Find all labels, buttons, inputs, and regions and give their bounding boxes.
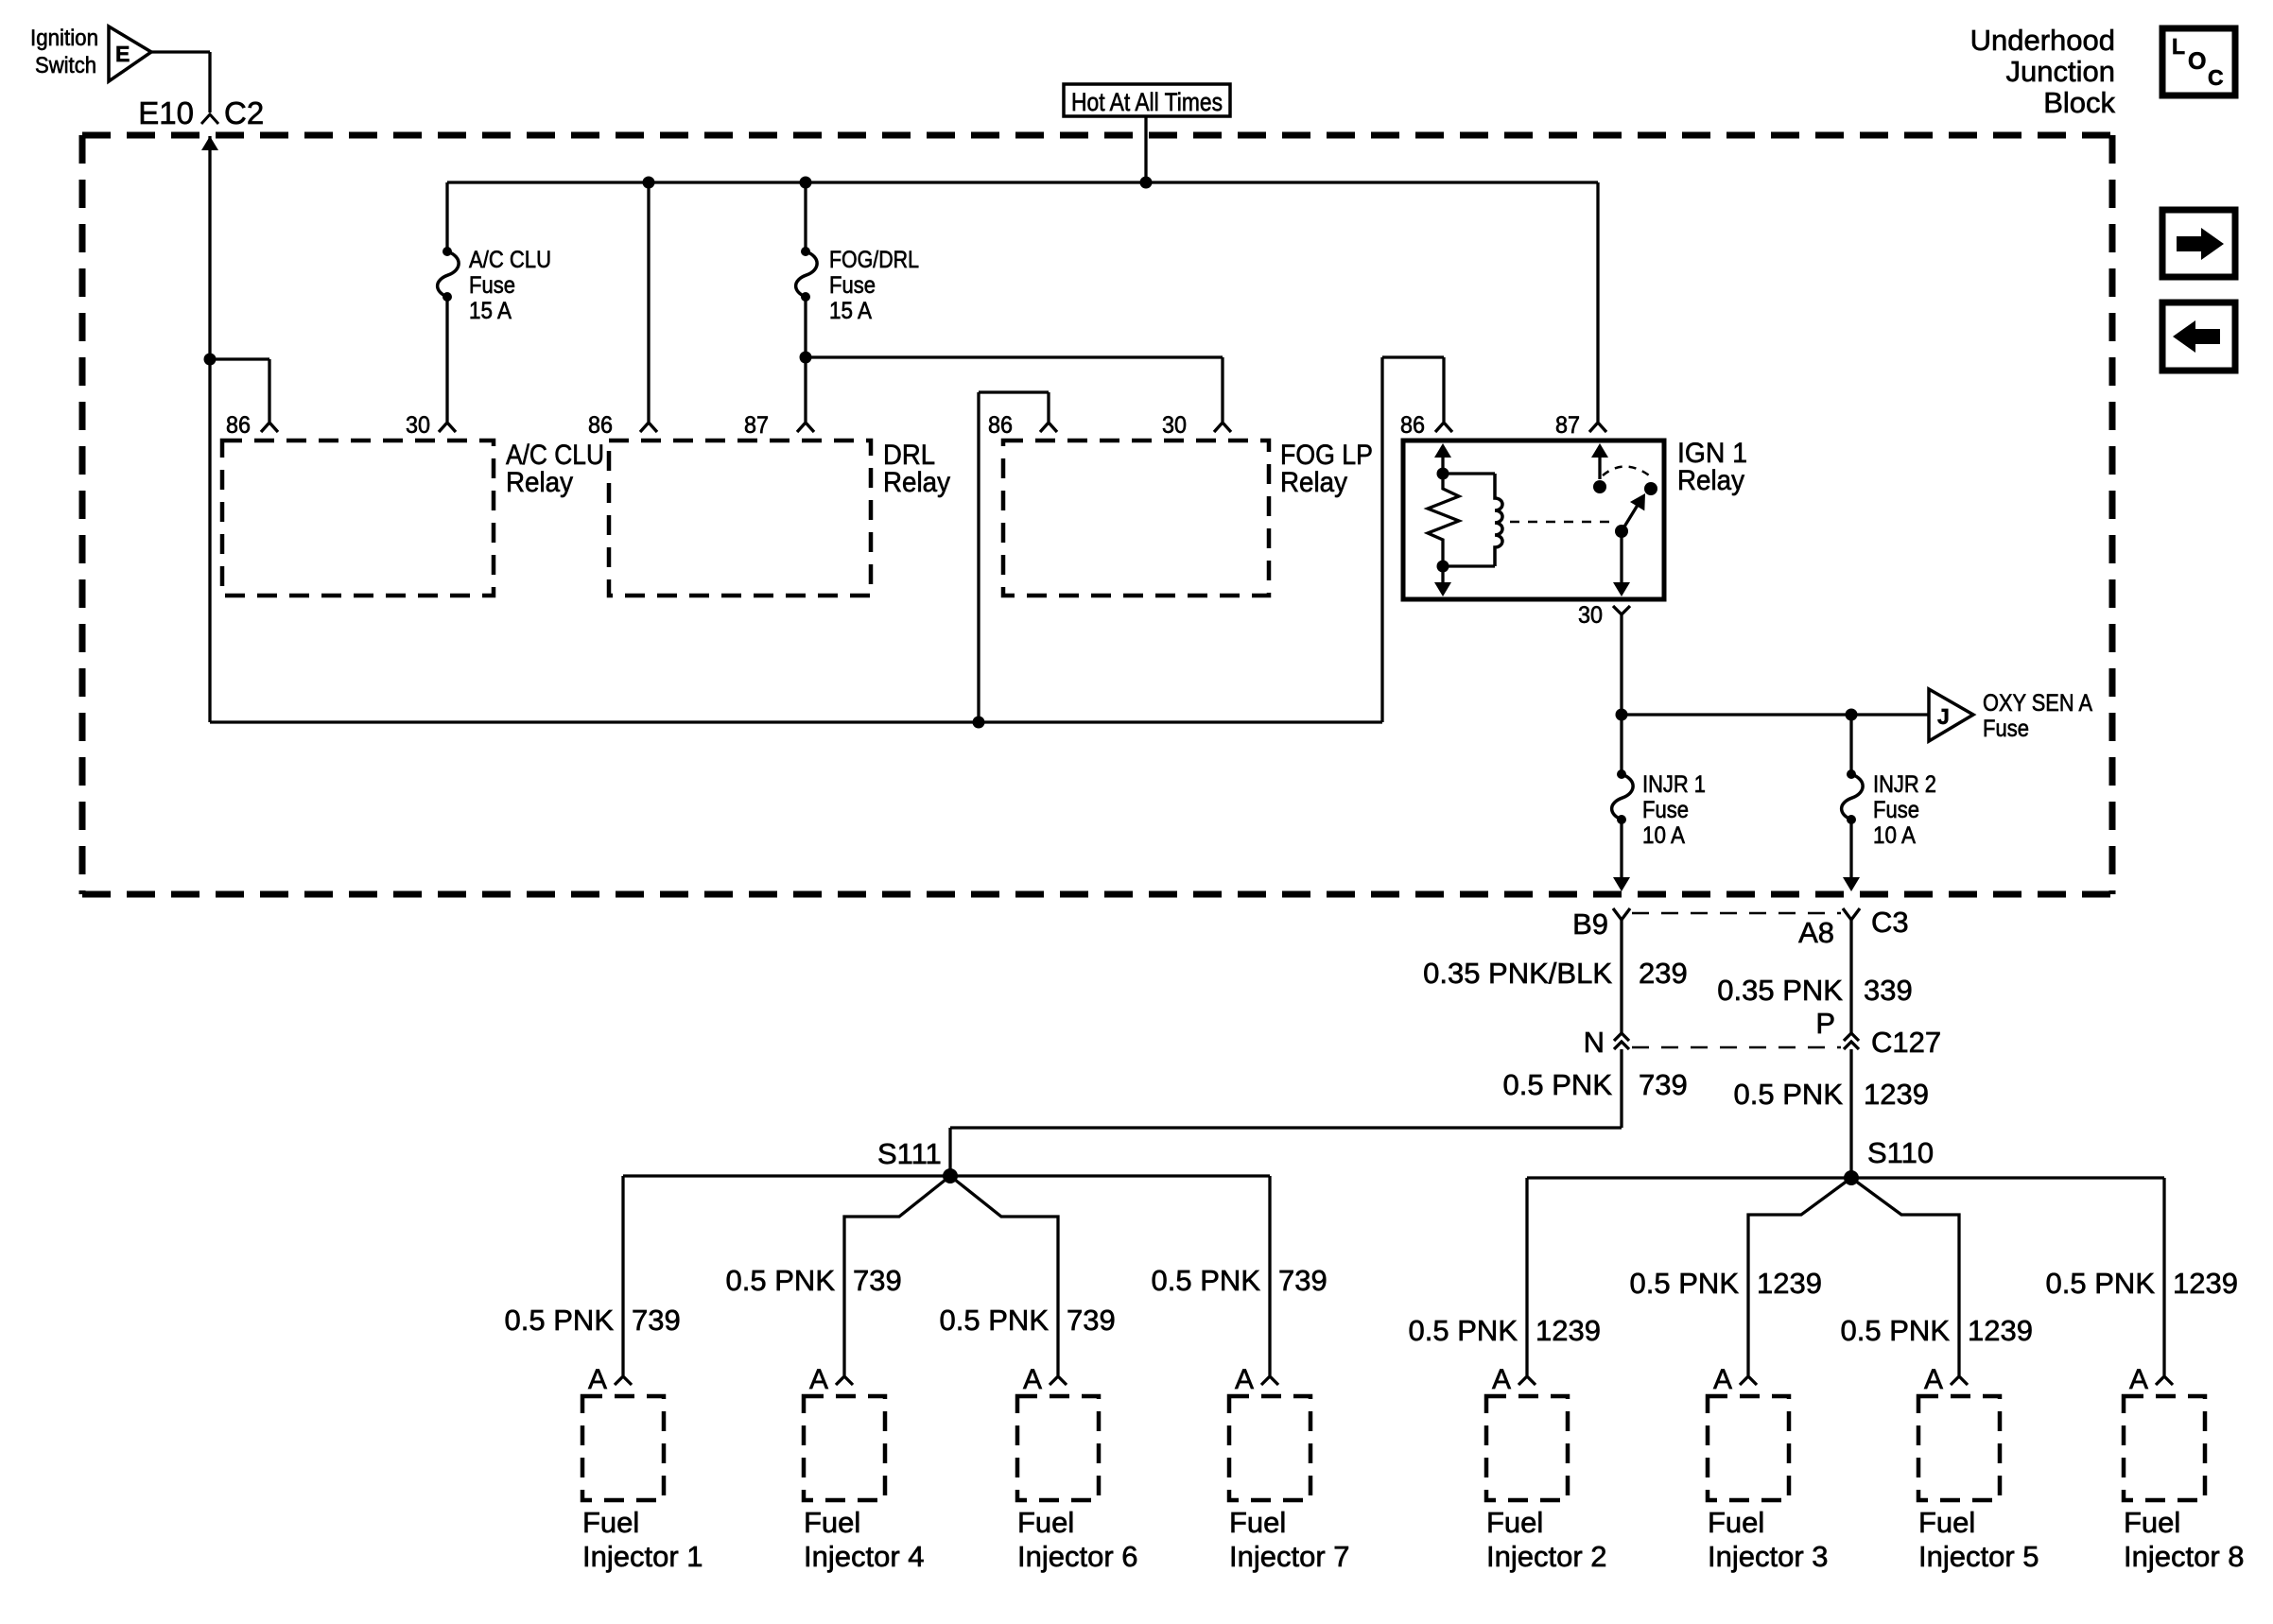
- svg-text:A: A: [1235, 1364, 1254, 1395]
- svg-text:P: P: [1815, 1007, 1835, 1040]
- wire from Hot At All Times to bus: [1144, 116, 1147, 182]
- junction node ignition feed to A/C CLU relay 86: [204, 354, 217, 366]
- svg-text:Relay: Relay: [1280, 467, 1347, 498]
- splice S110 distribution bus: [1527, 1176, 2164, 1179]
- ignition feed vertical wire: [208, 136, 211, 722]
- Hot At All Times callout box: [1064, 84, 1230, 116]
- label Fuel Injector 6: [1017, 1506, 1138, 1573]
- svg-text:INJR 1: INJR 1: [1642, 771, 1706, 798]
- svg-text:FOG/DRL: FOG/DRL: [829, 247, 919, 273]
- svg-text:Ignition: Ignition: [30, 26, 98, 51]
- wire splice S110 to fuel injector 5: [1851, 1178, 1959, 1375]
- wire 0.5 PNK 1239 to fuel injector 2: [1525, 1178, 1528, 1375]
- wire branch to FOG LP relay 30: [806, 355, 1223, 358]
- svg-text:739: 739: [1639, 1068, 1688, 1101]
- svg-text:Fuel: Fuel: [1918, 1506, 1975, 1539]
- svg-text:C127: C127: [1871, 1026, 1941, 1059]
- fuel injector 5 dashed box: [1918, 1396, 2000, 1500]
- svg-text:Relay: Relay: [506, 467, 573, 498]
- connector C127 dashed tie line: [1632, 1046, 1841, 1049]
- label Underhood Junction Block: [1970, 24, 2116, 119]
- terminal pin A chevron fuel injector 5: [1951, 1376, 1968, 1385]
- wire bus to DRL relay pin 86: [647, 182, 650, 422]
- fuse INJR 1 10 A: [1612, 769, 1634, 824]
- hot bus wire: [447, 181, 1598, 183]
- wire splice S111 to fuel injector 6: [950, 1176, 1058, 1375]
- legend box left arrow: [2162, 302, 2235, 371]
- direction arrow into junction block at C2: [201, 136, 218, 150]
- relay IGN 1 box: [1403, 441, 1664, 599]
- terminal pin 86 chevron: [1040, 423, 1057, 432]
- svg-text:A: A: [2129, 1364, 2148, 1395]
- connector pin C3 chevron: [1843, 908, 1860, 920]
- relay FOG LP dashed box: [1003, 441, 1269, 596]
- label INJR 1 Fuse 10 A: [1642, 771, 1706, 849]
- label Fuel Injector 1: [582, 1506, 703, 1573]
- svg-text:E: E: [115, 42, 130, 66]
- svg-text:739: 739: [853, 1264, 902, 1297]
- svg-text:A: A: [1924, 1364, 1943, 1395]
- terminal pin 30 connector below IGN 1 relay: [1613, 606, 1630, 624]
- wire to OXY SEN A fuse connector: [1622, 713, 1929, 716]
- IGN 1 relay switch lead to pin 30: [1620, 531, 1622, 583]
- svg-text:0.5 PNK: 0.5 PNK: [1630, 1267, 1740, 1300]
- svg-text:0.5 PNK: 0.5 PNK: [1841, 1314, 1951, 1347]
- direction arrow out of junction block INJR 2: [1843, 877, 1860, 891]
- svg-text:0.35 PNK: 0.35 PNK: [1717, 974, 1843, 1007]
- label Fuel Injector 5: [1918, 1506, 2039, 1573]
- fuel injector 1 dashed box: [582, 1396, 664, 1500]
- wire down to A/C CLU relay pin 86: [268, 359, 270, 422]
- terminal pin 30 chevron: [439, 423, 456, 432]
- label Fuel Injector 2: [1486, 1506, 1607, 1573]
- svg-text:C3: C3: [1871, 906, 1909, 939]
- terminal pin A chevron fuel injector 1: [615, 1376, 632, 1385]
- direction arrow out of junction block INJR 1: [1613, 877, 1630, 891]
- svg-text:A: A: [588, 1364, 607, 1395]
- svg-text:A: A: [809, 1364, 828, 1395]
- IGN 1 relay internal resistor: [1428, 474, 1459, 566]
- svg-text:S110: S110: [1867, 1136, 1934, 1169]
- fuel injector 7 dashed box: [1229, 1396, 1310, 1500]
- Underhood Junction Block dashed border: [82, 135, 2112, 894]
- label Fuel Injector 8: [2124, 1506, 2245, 1573]
- ignition feed stub to IGN 1 relay 86: [1382, 355, 1444, 358]
- svg-text:10 A: 10 A: [1873, 822, 1916, 849]
- IGN 1 relay switch-side pin 87 internal lead: [1591, 443, 1608, 458]
- junction node bus to Hot At All Times lead: [1140, 177, 1153, 189]
- IGN 1 relay switch fixed contact: [1593, 480, 1606, 493]
- fuel injector 8 dashed box: [2124, 1396, 2205, 1500]
- junction node FOG/DRL fuse output: [800, 352, 812, 364]
- fuse INJR 2 10 A: [1842, 769, 1864, 824]
- svg-text:S111: S111: [877, 1137, 942, 1170]
- wire down to FOG LP relay pin 86: [1047, 392, 1050, 422]
- svg-text:Fuel: Fuel: [804, 1506, 860, 1539]
- svg-text:339: 339: [1864, 974, 1913, 1007]
- terminal pin 30 chevron: [1214, 423, 1231, 432]
- svg-text:87: 87: [1555, 412, 1580, 439]
- IGN 1 relay switch alternate contact: [1644, 482, 1657, 495]
- svg-text:A: A: [1492, 1364, 1511, 1395]
- svg-text:1239: 1239: [1968, 1314, 2033, 1347]
- wire down to IGN 1 relay pin 86: [1442, 357, 1445, 422]
- svg-text:Injector 4: Injector 4: [804, 1540, 925, 1573]
- svg-text:A: A: [1023, 1364, 1042, 1395]
- wire 0.5 PNK 739 to fuel injector 7: [1268, 1176, 1271, 1375]
- svg-text:Fuel: Fuel: [582, 1506, 639, 1539]
- svg-text:0.5 PNK: 0.5 PNK: [1409, 1314, 1518, 1347]
- splice S110: [1844, 1170, 1859, 1185]
- fuel injector 2 dashed box: [1486, 1396, 1568, 1500]
- wire down to connector C2 pin E10: [208, 52, 211, 112]
- IGN 1 relay internal lead to box bottom: [1441, 566, 1444, 583]
- fuse A/C CLU 15 A: [438, 247, 460, 302]
- IGN 1 relay actuation dashed link: [1510, 521, 1613, 524]
- IGN 1 relay coil: [1495, 474, 1502, 566]
- svg-text:Injector 8: Injector 8: [2124, 1540, 2245, 1573]
- wire splice S110 to fuel injector 3: [1748, 1178, 1851, 1375]
- svg-text:Underhood: Underhood: [1970, 24, 2115, 57]
- svg-text:Fuse: Fuse: [829, 272, 876, 299]
- label A/C CLU Relay: [506, 440, 604, 498]
- svg-text:30: 30: [1578, 602, 1603, 629]
- legend box right arrow: [2162, 210, 2235, 277]
- connector C3 dashed tie line: [1632, 912, 1841, 915]
- wire A/C CLU fuse to relay pin 30: [445, 297, 448, 422]
- label A/C CLU Fuse 15 A: [469, 247, 551, 324]
- svg-text:E10: E10: [138, 95, 194, 130]
- wire IGN 1 pin 30 to INJR 1 fuse: [1620, 624, 1622, 774]
- svg-text:Fuse: Fuse: [1983, 716, 2029, 742]
- FOG LP relay 86 riser: [977, 392, 980, 722]
- label OXY SEN A Fuse: [1983, 690, 2092, 742]
- svg-text:Injector 3: Injector 3: [1708, 1540, 1829, 1573]
- svg-text:OXY SEN A: OXY SEN A: [1983, 690, 2092, 717]
- svg-text:A8: A8: [1798, 916, 1834, 949]
- wire 0.5 PNK 1239 to splice S110: [1849, 1049, 1852, 1178]
- wire 0.5 PNK 1239 to fuel injector 8: [2162, 1178, 2165, 1375]
- svg-text:86: 86: [1400, 412, 1425, 439]
- svg-text:1239: 1239: [1536, 1314, 1601, 1347]
- off-page connector J (OXY SEN A Fuse): [1929, 689, 1973, 741]
- svg-text:C2: C2: [224, 95, 264, 130]
- junction node feed to FOG LP relay 86: [973, 717, 985, 729]
- wire INJR 1 fuse to block edge: [1620, 820, 1622, 877]
- label Fuel Injector 4: [804, 1506, 925, 1573]
- svg-text:Hot At All Times: Hot At All Times: [1071, 88, 1223, 116]
- connector pin P chevron: [1844, 1033, 1859, 1049]
- svg-text:739: 739: [632, 1304, 681, 1337]
- connector pin E10/C2 chevron: [201, 114, 218, 124]
- splice S111 distribution bus: [623, 1174, 1270, 1177]
- svg-text:Fuel: Fuel: [1229, 1506, 1286, 1539]
- svg-text:Injector 1: Injector 1: [582, 1540, 703, 1573]
- svg-text:Relay: Relay: [883, 467, 950, 498]
- fuel injector 6 dashed box: [1017, 1396, 1099, 1500]
- junction node to INJR 2 fuse: [1846, 709, 1858, 721]
- wire bus to FOG/DRL fuse: [804, 182, 807, 251]
- bus drop to A/C CLU fuse: [445, 182, 448, 251]
- svg-text:Injector 6: Injector 6: [1017, 1540, 1138, 1573]
- svg-text:0.5 PNK: 0.5 PNK: [940, 1304, 1050, 1337]
- svg-text:1239: 1239: [2173, 1267, 2238, 1300]
- label Fuel Injector 7: [1229, 1506, 1350, 1573]
- relay DRL dashed box: [609, 441, 871, 596]
- svg-text:10 A: 10 A: [1642, 822, 1685, 849]
- label IGN 1 Relay: [1677, 438, 1747, 496]
- svg-text:Fuel: Fuel: [1486, 1506, 1543, 1539]
- wire FOG/DRL fuse to DRL relay pin 87: [804, 297, 807, 422]
- svg-text:INJR 2: INJR 2: [1873, 771, 1936, 798]
- wire 0.35 PNK/BLK 239: [1620, 920, 1622, 1033]
- svg-text:J: J: [1937, 704, 1950, 729]
- wire 0.5 PNK 739 to splice: [1620, 1049, 1622, 1128]
- terminal pin A chevron fuel injector 4: [836, 1376, 853, 1385]
- label DRL Relay: [883, 440, 950, 498]
- label FOG LP Relay: [1280, 440, 1373, 498]
- svg-text:Fuse: Fuse: [1642, 797, 1689, 823]
- terminal pin A chevron fuel injector 8: [2156, 1376, 2173, 1385]
- terminal pin 86 chevron: [640, 423, 657, 432]
- fuel injector 3 dashed box: [1708, 1396, 1789, 1500]
- svg-text:Fuel: Fuel: [2124, 1506, 2180, 1539]
- terminal pin A chevron fuel injector 3: [1740, 1376, 1757, 1385]
- svg-text:Fuse: Fuse: [1873, 797, 1919, 823]
- terminal pin 86 chevron: [261, 423, 278, 432]
- svg-text:0.5 PNK: 0.5 PNK: [2046, 1267, 2156, 1300]
- terminal pin A chevron fuel injector 7: [1261, 1376, 1278, 1385]
- svg-text:15 A: 15 A: [829, 298, 872, 324]
- svg-text:Block: Block: [2043, 86, 2115, 119]
- svg-text:30: 30: [1162, 412, 1187, 439]
- svg-text:Fuse: Fuse: [469, 272, 515, 299]
- fuel injector 4 dashed box: [804, 1396, 885, 1500]
- svg-text:0.5 PNK: 0.5 PNK: [505, 1304, 615, 1337]
- wire splice S111 to fuel injector 4: [844, 1176, 950, 1375]
- svg-text:Injector 7: Injector 7: [1229, 1540, 1350, 1573]
- IGN 1 relay coil branch stubs: [1443, 472, 1495, 475]
- svg-text:0.35 PNK/BLK: 0.35 PNK/BLK: [1423, 957, 1612, 990]
- IGN 1 relay coil-side pin 86 internal lead: [1434, 443, 1451, 458]
- terminal pin A chevron fuel injector 6: [1050, 1376, 1067, 1385]
- label FOG/DRL Fuse 15 A: [829, 247, 919, 324]
- svg-text:Injector 2: Injector 2: [1486, 1540, 1607, 1573]
- wire drop to splice S111: [948, 1128, 951, 1176]
- label INJR 2 Fuse 10 A: [1873, 771, 1936, 849]
- svg-text:A: A: [1713, 1364, 1732, 1395]
- svg-text:30: 30: [406, 412, 430, 439]
- svg-text:86: 86: [988, 412, 1013, 439]
- svg-text:Injector 5: Injector 5: [1918, 1540, 2039, 1573]
- wire INJR 2 fuse to block edge: [1849, 820, 1852, 877]
- terminal pin 87 chevron: [1589, 423, 1606, 432]
- svg-text:1239: 1239: [1757, 1267, 1822, 1300]
- connector pin B9 chevron: [1613, 908, 1630, 920]
- svg-text:0.5 PNK: 0.5 PNK: [1152, 1264, 1261, 1297]
- ignition feed riser to IGN 1 relay 86: [1380, 357, 1383, 722]
- svg-text:Switch: Switch: [35, 53, 96, 78]
- IGN 1 relay switch pivot: [1615, 525, 1628, 538]
- svg-text:0.5 PNK: 0.5 PNK: [1734, 1078, 1844, 1111]
- svg-text:0.5 PNK: 0.5 PNK: [726, 1264, 836, 1297]
- svg-text:Relay: Relay: [1677, 465, 1744, 496]
- svg-text:O: O: [2188, 48, 2206, 75]
- wire 0.35 PNK 339: [1849, 920, 1852, 1033]
- svg-text:1239: 1239: [1864, 1078, 1929, 1111]
- junction node bus to DRL relay 86: [643, 177, 655, 189]
- svg-text:A/C CLU: A/C CLU: [469, 247, 551, 273]
- svg-text:739: 739: [1278, 1264, 1327, 1297]
- ignition feed horizontal wire across block: [210, 720, 1382, 723]
- junction node to OXY SEN A fuse feed: [1616, 709, 1628, 721]
- connector pin N chevron: [1614, 1033, 1629, 1049]
- svg-text:C: C: [2208, 65, 2224, 90]
- label Ignition Switch: [30, 26, 98, 78]
- wire to splice S111: [950, 1126, 1622, 1129]
- svg-text:L: L: [2172, 34, 2185, 59]
- junction node bus to FOG/DRL fuse: [800, 177, 812, 189]
- svg-text:15 A: 15 A: [469, 298, 512, 324]
- svg-text:86: 86: [588, 412, 613, 439]
- IGN 1 relay internal node lower: [1437, 561, 1449, 573]
- wire to INJR 2 fuse: [1849, 715, 1852, 774]
- relay A/C CLU dashed box: [222, 441, 494, 596]
- label Fuel Injector 3: [1708, 1506, 1829, 1573]
- svg-text:0.5 PNK: 0.5 PNK: [1503, 1068, 1613, 1101]
- svg-text:239: 239: [1639, 957, 1688, 990]
- terminal pin 86 chevron: [1435, 423, 1452, 432]
- bus drop to IGN 1 relay pin 87: [1596, 182, 1599, 422]
- svg-text:739: 739: [1067, 1304, 1116, 1337]
- FOG LP relay 86 stub: [979, 390, 1049, 393]
- splice S111: [943, 1168, 958, 1183]
- IGN 1 relay switch movable arm: [1622, 502, 1640, 531]
- svg-text:Fuel: Fuel: [1708, 1506, 1764, 1539]
- svg-text:Junction: Junction: [2006, 55, 2115, 88]
- fuse FOG/DRL 15 A: [796, 247, 818, 302]
- svg-text:B9: B9: [1572, 907, 1608, 941]
- svg-text:Fuel: Fuel: [1017, 1506, 1074, 1539]
- wire branch to A/C CLU relay 86: [210, 357, 269, 360]
- wire from connector E: [151, 50, 210, 53]
- IGN 1 relay switch throw dashed arc: [1603, 466, 1652, 477]
- svg-text:86: 86: [226, 412, 251, 439]
- terminal pin A chevron fuel injector 2: [1518, 1376, 1536, 1385]
- svg-text:N: N: [1584, 1026, 1605, 1059]
- terminal pin 87 chevron: [797, 423, 814, 432]
- wire 0.5 PNK 739 to fuel injector 1: [621, 1176, 624, 1375]
- off-page connector E (ignition switch): [109, 26, 151, 81]
- LOC legend box: [2162, 28, 2235, 95]
- svg-text:87: 87: [744, 412, 769, 439]
- wire down to FOG LP relay pin 30: [1221, 357, 1223, 422]
